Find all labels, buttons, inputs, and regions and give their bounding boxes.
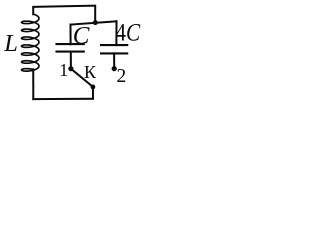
node: contact 1	[68, 66, 73, 71]
wire: C top lead	[70, 25, 72, 45]
wire: inductor bottom lead	[32, 69, 34, 99]
capacitor C plates	[57, 44, 84, 52]
svg-text:4C: 4C	[115, 18, 141, 47]
wire: C bottom lead	[70, 52, 72, 69]
node: top junction dot	[93, 20, 98, 25]
capacitor 4C plates	[101, 45, 127, 53]
node: contact 2	[112, 66, 117, 71]
switch K blade	[71, 69, 93, 87]
wire: 4C bottom lead	[113, 53, 115, 68]
wire: inductor top lead, top wire, right drop	[33, 6, 95, 23]
svg-text:L: L	[3, 30, 18, 57]
wire: bottom wire	[33, 98, 93, 100]
svg-text:1: 1	[59, 60, 68, 80]
wire: pivot stub	[92, 87, 94, 99]
svg-text:C: C	[73, 22, 90, 49]
svg-text:К: К	[84, 62, 97, 82]
node: switch pivot	[91, 85, 96, 90]
wire: capacitor bus	[71, 21, 117, 24]
svg-text:2: 2	[117, 66, 127, 87]
inductor L coil	[22, 14, 40, 71]
wire: 4C top lead	[115, 21, 117, 45]
